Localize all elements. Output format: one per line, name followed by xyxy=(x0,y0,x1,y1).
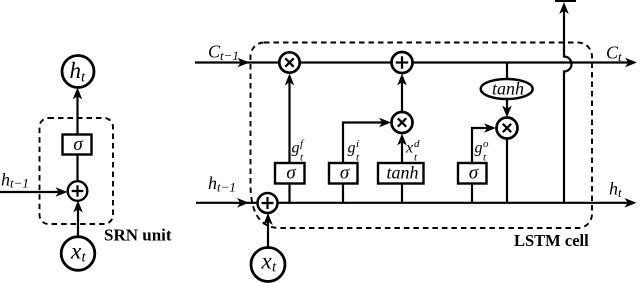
svg-text:σ: σ xyxy=(286,163,296,184)
sigma box g_f xyxy=(275,163,305,184)
sigma box SRN xyxy=(63,135,92,155)
wire g_o box to h line xyxy=(471,183,473,202)
svg-text:LSTM cell: LSTM cell xyxy=(514,231,589,250)
wire tanh box up to times2 xyxy=(401,137,403,164)
svg-text:tanh: tanh xyxy=(492,79,524,99)
arrowhead into times3 top (down) xyxy=(502,106,512,118)
svg-text:i: i xyxy=(356,138,359,150)
node h_t circle xyxy=(62,56,94,88)
arrowhead into times3 left xyxy=(484,123,496,133)
wire times3 to h line xyxy=(506,138,508,202)
svg-text:t−1: t−1 xyxy=(220,48,239,63)
svg-text:h: h xyxy=(1,170,10,190)
wire g_i bent to times2 xyxy=(343,123,387,164)
arrowhead C_t output xyxy=(625,58,637,68)
svg-text:t−1: t−1 xyxy=(217,180,236,195)
tanh ellipse xyxy=(481,79,533,99)
wire tanh box to h line xyxy=(401,183,403,202)
svg-text:x: x xyxy=(405,140,413,157)
wire sigma to h_t xyxy=(76,91,78,136)
svg-text:σ: σ xyxy=(73,134,83,155)
sigma box g_o xyxy=(458,163,487,184)
svg-text:t: t xyxy=(618,49,622,64)
arrowhead h_t-1 into box xyxy=(237,198,249,208)
arrowhead into times2 bottom xyxy=(397,134,407,146)
node x_t circle (LSTM) xyxy=(251,248,285,282)
svg-text:x: x xyxy=(261,249,273,274)
arrowhead into plus (SRN) xyxy=(73,201,83,213)
wire times2 up to plus2 xyxy=(401,77,403,113)
wire h_t-1 input xyxy=(0,191,62,193)
sigma box g_i xyxy=(329,163,358,184)
wire x_t (LSTM) to plus3 xyxy=(267,216,269,249)
dashed box LSTM cell xyxy=(251,43,593,229)
arrowhead h_t-1 xyxy=(56,187,68,197)
svg-text:g: g xyxy=(292,140,300,157)
svg-text:h: h xyxy=(609,179,618,199)
times3 circle xyxy=(497,118,518,139)
svg-text:d: d xyxy=(414,138,420,150)
svg-text:σ: σ xyxy=(340,163,350,184)
svg-text:g: g xyxy=(475,140,483,157)
times2 circle xyxy=(392,112,413,133)
arrowhead into h_t xyxy=(73,88,83,100)
wire x_t to plus xyxy=(77,203,79,238)
svg-text:g: g xyxy=(348,140,356,157)
arrowhead C into box xyxy=(238,58,250,68)
arrowhead into plus3 xyxy=(263,213,273,225)
wire g_i box to h line xyxy=(342,183,344,202)
svg-text:h: h xyxy=(208,173,217,193)
wire C to tanh ellipse xyxy=(506,62,508,80)
svg-text:tanh: tanh xyxy=(386,163,418,183)
plus circle SRN xyxy=(68,181,88,201)
times1 circle xyxy=(279,52,299,72)
arrowhead up output xyxy=(559,2,569,14)
wire h up output with hop xyxy=(564,8,572,202)
svg-text:x: x xyxy=(70,239,82,264)
wire sigma to plus xyxy=(76,153,78,183)
arrowhead into times1 xyxy=(285,74,295,86)
plus2 circle xyxy=(392,52,413,73)
svg-text:t: t xyxy=(618,185,622,200)
wire tanh ellipse to times3 xyxy=(506,98,508,114)
arrowhead h_t output xyxy=(625,198,637,208)
arrowhead into times2 left xyxy=(379,118,391,128)
node x_t circle xyxy=(61,237,95,271)
tanh box xyxy=(378,163,424,184)
arrowhead into plus2 xyxy=(397,74,407,86)
h line xyxy=(196,202,628,204)
svg-text:t−1: t−1 xyxy=(10,176,29,191)
wire g_f box to h line xyxy=(288,183,290,202)
svg-text:o: o xyxy=(483,138,489,150)
dashed box SRN unit xyxy=(40,118,114,224)
plus3 circle (bottom left) xyxy=(258,193,278,213)
svg-text:h: h xyxy=(70,58,82,83)
wire g_o bent to times3 xyxy=(472,128,492,163)
clipped shape at top edge xyxy=(555,0,576,2)
C line xyxy=(195,61,630,63)
svg-text:σ: σ xyxy=(469,163,479,184)
svg-text:SRN unit: SRN unit xyxy=(104,226,172,245)
wire g_f up to times1 xyxy=(288,76,290,163)
